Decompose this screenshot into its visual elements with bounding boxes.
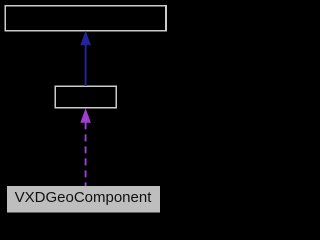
wire: inheritance edge (solid, midnight blue) (85, 45, 87, 86)
svg-text:VXDGeoComponent: VXDGeoComponent (15, 189, 153, 206)
node: VXDGeoComponent (current class, grey filled) (7, 186, 160, 213)
inheritance/collaboration graph: VXDGeoComponent (0, 0, 171, 219)
node: top base-class box (empty) (5, 6, 166, 31)
arrowhead: inheritance edge (80, 31, 91, 46)
wire: usage edge (dashed, dark orchid) (85, 122, 87, 186)
node: middle class box (empty) (55, 86, 116, 107)
arrowhead: usage edge (80, 108, 91, 123)
